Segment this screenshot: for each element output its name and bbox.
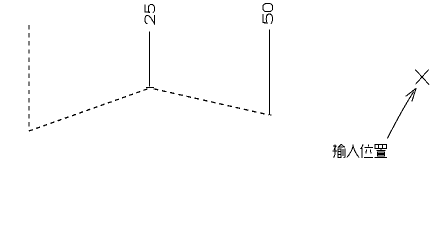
dimension extension line 50 xyxy=(268,30,270,114)
glyph 入 xyxy=(347,145,360,158)
digit 2 xyxy=(145,15,155,24)
glyph 置 xyxy=(375,145,387,158)
digit 0 xyxy=(263,4,273,12)
wire: left vertical dashed line xyxy=(28,25,30,131)
dimension text 25 (rotated) xyxy=(145,4,155,23)
glyph 输 xyxy=(333,144,345,157)
leader arrow shaft (curved) xyxy=(387,92,414,139)
digit 5 xyxy=(263,14,273,24)
dimension extension line 25 xyxy=(149,31,151,86)
leader arrowhead barb upper xyxy=(406,88,417,96)
node X marker text xyxy=(415,69,429,84)
digit 5 xyxy=(145,4,155,12)
dimension text 50 (rotated) xyxy=(263,4,273,24)
hook at base of extension line 50 xyxy=(269,112,271,115)
tick at base of extension line 25 xyxy=(146,86,154,88)
leader arrowhead barb lower xyxy=(412,88,416,101)
wire: descending dashed segment from peak to right vertex xyxy=(150,88,269,115)
glyph 位 xyxy=(361,144,373,158)
label 输入位置 (hand drawn glyphs) xyxy=(333,144,387,158)
wire: rising dashed segment from lower-left vertex to peak xyxy=(29,88,150,131)
